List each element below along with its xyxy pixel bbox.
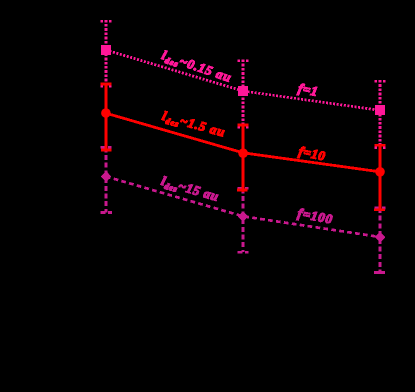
diamond markers (f=100)	[101, 171, 385, 242]
square markers (f=1)	[101, 45, 385, 115]
f=100 point3 top cap	[375, 207, 386, 210]
label l_des~15 au	[160, 176, 219, 204]
f=10 circle marker 1	[101, 108, 111, 118]
f=10 circle marker 2	[238, 148, 248, 158]
f=100 point2 top cap	[238, 187, 249, 190]
series f=10 error bars (solid red)	[101, 84, 386, 211]
f=10 point1 top cap	[101, 83, 112, 86]
f=1 point3 top cap	[375, 80, 386, 83]
series f=1 error bars (dotted magenta)	[101, 20, 386, 148]
f=1 square marker 3	[375, 105, 385, 115]
f=1 point2 top cap	[238, 59, 249, 62]
f=100 diamond marker 2	[238, 211, 249, 222]
f=100 point1 bottom cap	[100, 211, 112, 214]
f=100 diamond marker 1	[101, 171, 111, 182]
f=1 point3 error bar	[379, 80, 382, 148]
f=1 square marker 2	[238, 86, 248, 96]
f=100 point1 error bar	[105, 147, 108, 212]
f=1 point1 error bar	[105, 20, 108, 87]
f=10 point2 top cap	[238, 124, 249, 127]
f=1 point2 bottom cap	[238, 126, 249, 129]
f=10 point1 error bar	[105, 84, 108, 151]
f=1 point1 bottom cap	[101, 85, 112, 88]
series f=100 error bars (dashed purple)	[100, 147, 385, 272]
label l_des~0.15 au	[160, 50, 231, 84]
label f=10	[297, 146, 325, 163]
f=1 point1 top cap	[101, 20, 112, 23]
f=10 circle marker 3	[375, 167, 385, 177]
f=10 point3 top cap	[375, 144, 386, 147]
f=1 point3 bottom cap	[375, 146, 386, 149]
f=100 point3 error bar	[379, 208, 382, 273]
f=10 point3 error bar	[379, 145, 382, 211]
series f=100: dashed purple line through diamonds	[106, 177, 380, 238]
f=10 point2 error bar	[242, 125, 245, 192]
label f=1	[297, 83, 317, 99]
f=100 diamond marker 3	[375, 232, 386, 243]
f=10 point1 bottom cap	[101, 149, 112, 152]
f=100 point2 error bar	[242, 188, 245, 252]
label f=100	[296, 208, 332, 226]
label l_des~1.5 au	[161, 111, 225, 139]
f=100 point1 top cap	[101, 146, 112, 149]
series f=1: dotted magenta line through squares	[106, 50, 380, 110]
series f=10: solid red line through circles	[106, 113, 380, 172]
f=1 point2 error bar	[242, 60, 245, 128]
f=100 point2 bottom cap	[238, 251, 249, 254]
f=100 point3 bottom cap	[374, 271, 385, 274]
f=10 point2 bottom cap	[237, 189, 248, 192]
f=1 square marker 1	[101, 45, 111, 55]
f=10 point3 bottom cap	[374, 208, 385, 211]
circle markers (f=10)	[101, 108, 385, 176]
